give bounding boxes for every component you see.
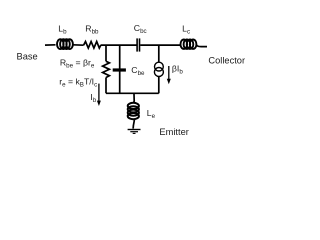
wire R_be branch bottom — [105, 78, 107, 94]
wire collector lead — [196, 45, 207, 47]
svg-text:Emitter: Emitter — [159, 127, 188, 137]
wire R_bb to C_bc — [101, 44, 137, 46]
capacitor C_be — [113, 68, 126, 71]
capacitor C_bc — [137, 38, 139, 51]
wire base lead — [45, 44, 56, 46]
wire L_e to ground — [133, 120, 134, 129]
inductor L_c — [181, 40, 197, 49]
wire R_be branch top — [105, 45, 107, 61]
resistor R_be — [103, 61, 110, 77]
wire bottom rail — [106, 92, 159, 94]
current arrow beta*I_b — [168, 66, 170, 80]
resistor R_bb — [84, 42, 101, 49]
current source beta*I_b — [154, 62, 163, 76]
wire current source top — [158, 45, 160, 62]
inductor L_e — [128, 103, 139, 119]
current arrow I_b — [98, 84, 100, 101]
wire L_b to R_bb — [73, 44, 84, 46]
svg-text:Base: Base — [17, 51, 38, 61]
wire C_be branch — [119, 45, 121, 93]
svg-text:Collector: Collector — [208, 56, 245, 66]
inductor L_b — [57, 39, 73, 49]
wire emitter drop — [133, 94, 136, 103]
ground — [128, 130, 141, 134]
wire C_bc to L_c — [140, 44, 181, 46]
wire current source bottom — [158, 76, 160, 93]
